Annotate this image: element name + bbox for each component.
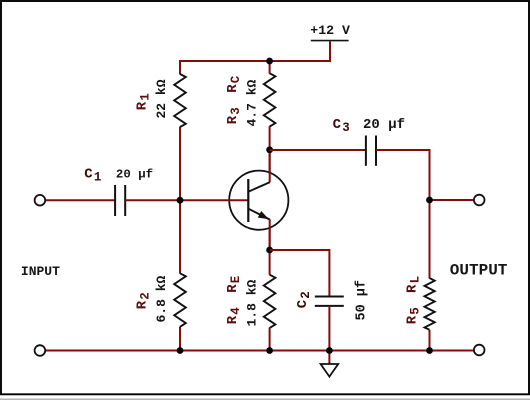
node collector dot (266, 146, 273, 153)
power +12V underline (311, 40, 349, 42)
wire ground stub (328, 351, 330, 365)
svg-text:4.7 kΩ: 4.7 kΩ (245, 79, 260, 126)
resistor R1 (174, 74, 186, 127)
wire C2 to ground rail (328, 306, 330, 351)
svg-text:RL: RL (404, 276, 422, 293)
svg-text:22 kΩ: 22 kΩ (154, 79, 169, 118)
emitter arrowhead (258, 211, 269, 219)
svg-text:C2: C2 (295, 291, 313, 308)
node emitter dot (266, 247, 273, 254)
wire output node to terminal (430, 199, 475, 201)
svg-text:RE: RE (225, 276, 243, 293)
transistor collector line (249, 182, 270, 191)
svg-text:1.8 kΩ: 1.8 kΩ (245, 279, 260, 326)
svg-text:INPUT: INPUT (21, 264, 60, 279)
svg-text:R5: R5 (404, 307, 422, 324)
wire R1 branch leads (179, 60, 181, 351)
wire top rail (180, 42, 330, 62)
svg-text:R2: R2 (134, 292, 152, 309)
node output dot (426, 197, 433, 204)
capacitor C1 (115, 185, 125, 216)
wire bottom rail (45, 350, 474, 352)
resistor R5 (425, 278, 435, 330)
svg-text:C3: C3 (333, 117, 350, 135)
terminal input bottom (35, 345, 46, 356)
ground symbol (321, 364, 339, 377)
svg-text:C1: C1 (84, 166, 101, 184)
resistor R2 (174, 273, 186, 327)
wire emitter branch (269, 228, 271, 351)
svg-text:50 µf: 50 µf (355, 280, 370, 321)
terminal input top (35, 195, 46, 206)
wire R5 leads (429, 200, 431, 351)
node R4 bottom dot (266, 347, 273, 354)
wire collector to C3 (270, 149, 366, 151)
terminal output bottom (474, 345, 485, 356)
terminal output top (474, 195, 485, 206)
resistor R4 (264, 275, 276, 328)
svg-text:R1: R1 (134, 93, 152, 110)
wire emitter vertical (269, 219, 271, 250)
wire input to C1 (45, 199, 115, 201)
wire collector vertical (269, 150, 271, 183)
transistor emitter line (249, 209, 270, 220)
capacitor C3 (366, 136, 376, 166)
wire C1 to base bar (125, 199, 248, 201)
node base dot (177, 197, 184, 204)
node R2 bottom dot (177, 347, 184, 354)
svg-text:RC: RC (225, 75, 243, 93)
transistor Q1 circle (229, 171, 288, 230)
resistor R3 (264, 73, 276, 126)
node C2 ground dot (326, 347, 333, 354)
wire emitter to C2 (270, 250, 330, 296)
svg-text:OUTPUT: OUTPUT (450, 261, 508, 279)
svg-text:20 µf: 20 µf (116, 167, 153, 181)
transistor base bar (247, 179, 249, 222)
svg-text:20 µf: 20 µf (363, 117, 405, 133)
svg-text:R3: R3 (225, 107, 243, 124)
wire C3 to output node (376, 150, 430, 200)
svg-text:+12 V: +12 V (310, 23, 350, 38)
capacitor C2 (315, 297, 344, 306)
node output bottom dot (426, 347, 433, 354)
svg-text:R4: R4 (225, 307, 243, 325)
node top rail dot (266, 58, 273, 65)
svg-text:6.8 kΩ: 6.8 kΩ (154, 275, 169, 322)
wire R3 branch leads (269, 60, 271, 173)
